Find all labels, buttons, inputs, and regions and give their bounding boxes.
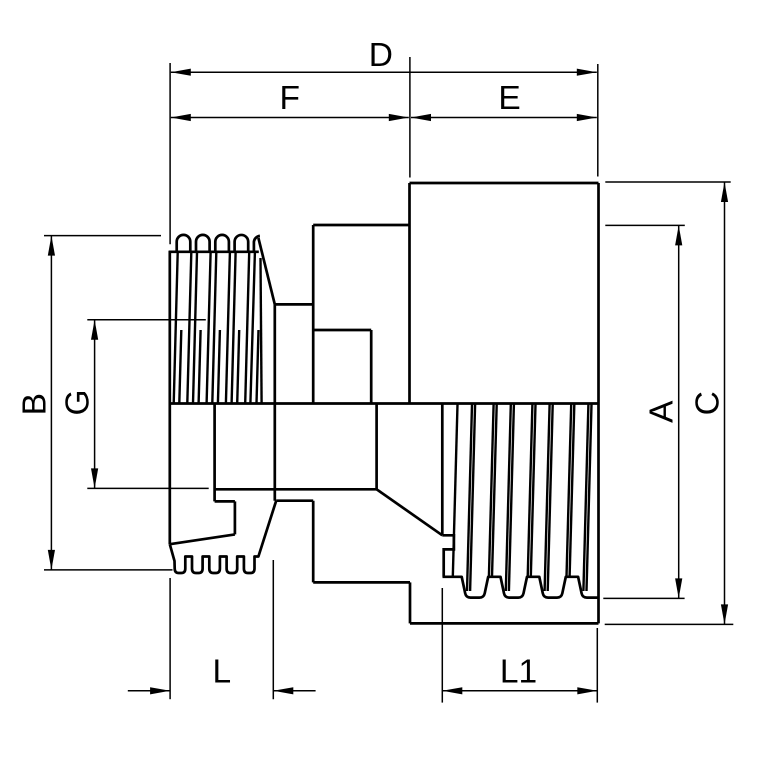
dimension F line [171,117,409,119]
leader line G top [87,319,206,321]
hex bottom line y=582.4 [313,581,410,584]
leader line B top [44,235,161,237]
bore ledge y=489 [215,488,377,491]
leader line B bottom [44,569,173,571]
dimension D right arrow [577,69,597,76]
dimension L line right segment [273,690,315,692]
male thread flank lines [174,253,262,404]
big block / body right wall [597,183,600,623]
dimension A line [678,225,680,598]
hex inner step vertical x=371 [370,330,373,404]
big block left wall [408,183,411,404]
female bore left wall [441,404,444,536]
dimension L left arrow [150,687,170,694]
cone wall x=376.6 [375,404,378,490]
leader line C top [605,181,730,183]
dimension L right arrow [273,687,293,694]
dimension D line [171,71,597,73]
hex section top line [313,224,409,227]
dimension B top arrow [48,236,55,256]
slant from spike to notch [170,534,235,544]
svg-text:B: B [16,393,53,415]
dimension E left arrow [411,114,431,121]
hex section left wall (upper) [312,225,315,404]
extension line L left x=170 [169,578,171,699]
extension line L1 right x=597.3 [596,628,598,703]
hex left wall (lower) [312,501,315,583]
notch vertical x=235 [234,501,237,534]
shank wall below chamfer (upper) [273,304,276,403]
dimension D left arrow [171,69,191,76]
svg-text:E: E [498,80,520,117]
svg-text:C: C [690,391,727,415]
svg-text:G: G [59,389,96,415]
shoulder ledge y=304 [275,303,313,306]
dimension B bottom arrow [48,550,55,570]
svg-text:F: F [279,80,299,117]
leader line G bottom [87,487,208,489]
shank wall below axis x=274.8 [273,404,276,501]
dimension E line [411,117,597,119]
big block top line [410,182,599,185]
dimension A top arrow [675,225,682,245]
female thread flank lines [453,405,592,592]
male thread left wall (lower) [168,404,171,545]
dimension C line [724,182,726,624]
svg-text:A: A [644,400,681,423]
dimension E right arrow [577,114,597,121]
step down wall x=410 [409,582,412,623]
dimension C top arrow [721,182,728,202]
left bore wall x=214.6 (lower) [213,404,216,502]
male thread left wall (upper) [168,251,171,404]
extension line L1 left x=442.3 [441,588,443,703]
female thread root/crest profile [443,577,599,598]
male thread crest loops [177,235,260,253]
dimension C bottom arrow [721,604,728,624]
dimension L1 left arrow [442,687,462,694]
leader line A top [605,224,685,226]
extension line left x=170 (D,F) [169,63,171,244]
male thread chamfer (upper right) [258,238,274,304]
dimension G top arrow [91,320,98,340]
svg-text:L: L [212,653,231,690]
internal cone slant [377,489,443,535]
ledge y=500.7 [276,499,313,502]
svg-text:L1: L1 [500,653,537,690]
dimension F right arrow [389,114,409,121]
dimension G bottom arrow [91,468,98,488]
thread relief notch [442,535,454,577]
extension line middle x=410 (F,E) [409,57,411,178]
svg-text:D: D [369,37,393,74]
dimension F left arrow [171,114,191,121]
dimension A bottom arrow [675,578,682,598]
male thread root top line [169,250,259,253]
hex inner step horizontal y=330 [313,329,371,332]
notch horizontal y=501 [215,500,235,503]
axis / mid body line [170,402,599,405]
dimension L1 right arrow [577,687,597,694]
leader line C bottom [605,623,734,625]
leader line A bottom [603,597,684,599]
dimension B line [50,236,52,570]
extension line L right x=273.3 [272,560,274,699]
dimension L1 line [442,690,597,692]
body bottom line y=623.4 [410,622,599,625]
dimension L line left segment [128,690,170,692]
extension line right x=598 (D,E) [597,64,599,177]
lower-left spike and serrated thread profile [170,501,276,573]
dimension G line [94,320,96,489]
